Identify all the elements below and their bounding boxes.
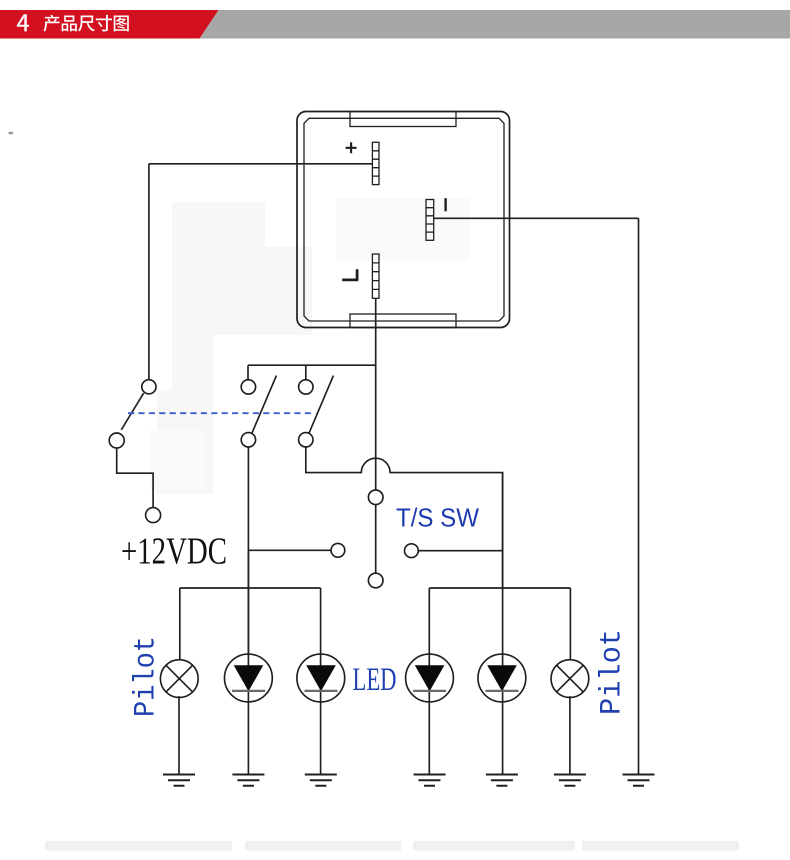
left lamp bus <box>180 587 321 589</box>
LED3 <box>406 654 454 774</box>
ground pilot L <box>163 775 195 786</box>
L terminal label <box>342 269 358 280</box>
relay box U1 outer shell <box>297 112 510 328</box>
plus terminal label <box>346 142 357 153</box>
LED4 <box>478 654 526 774</box>
header red band <box>0 10 219 39</box>
switch S1 lever <box>121 393 143 430</box>
watermark arc near LED1 <box>224 664 229 692</box>
wire minus pin to right <box>434 217 639 219</box>
svg-text:T/S SW: T/S SW <box>396 503 479 533</box>
mechanical link dashed <box>128 412 315 414</box>
wire left vertical down to S1 <box>148 164 150 380</box>
pin strip + <box>372 142 379 184</box>
pin strip L <box>372 254 379 298</box>
T/S SW pole bottom circle <box>368 573 383 588</box>
wire middle bus from L <box>248 364 376 366</box>
switch S3 bottom contact <box>299 433 313 447</box>
ground LED3 <box>414 775 446 786</box>
wire right vertical down to ground <box>638 218 640 774</box>
pilot R wire to ground <box>569 696 571 774</box>
watermark background shapes <box>157 202 312 494</box>
right lamp bus <box>429 587 570 589</box>
wire + pin to left <box>149 163 373 165</box>
wire bus drop to LED2 <box>320 588 322 655</box>
ground negative return <box>623 775 655 786</box>
switch S1 bottom contact <box>109 433 124 448</box>
wire right vertical from hop junction <box>502 473 504 588</box>
minus terminal label <box>444 198 446 211</box>
ground LED2 <box>305 775 337 786</box>
LED2 <box>297 654 345 774</box>
header gray band <box>200 10 790 39</box>
T/S SW pole top circle <box>368 490 383 505</box>
wire L pin down <box>375 298 377 365</box>
right throw contact circle <box>405 544 419 558</box>
wire right throw <box>418 550 502 552</box>
left throw contact circle <box>331 543 345 557</box>
wire stub to S2 <box>247 365 249 380</box>
svg-text:LED: LED <box>353 662 397 698</box>
wire bus drop to LED4 <box>502 588 504 655</box>
wire S2 down to LED1 <box>247 447 249 655</box>
wire bus drop to pilot L <box>179 588 181 660</box>
ground pilot R <box>554 775 586 786</box>
relay top mounting tab <box>350 112 456 127</box>
title text 4 产品尺寸图 <box>17 14 129 31</box>
wire left throw <box>248 549 331 551</box>
wire junction down at 248 <box>247 550 249 654</box>
svg-text:Pilot: Pilot <box>130 636 164 717</box>
switch S3 lever <box>309 376 334 434</box>
ground LED1 <box>232 775 264 786</box>
wire bus drop to LED3 <box>428 588 430 655</box>
wire bus drop to pilot R <box>569 588 571 660</box>
pilot lamp right <box>551 660 589 698</box>
wire S3 down and right with hop <box>306 447 503 588</box>
relay box inner wall <box>304 118 504 321</box>
LED1 <box>225 654 273 774</box>
wire S1 to +12VDC terminal <box>117 448 153 508</box>
ground LED4 <box>486 775 518 786</box>
+12VDC terminal circle <box>146 508 161 523</box>
wire T/S pole down <box>375 365 377 490</box>
switch S2 bottom contact <box>241 433 255 447</box>
pilot L wire to ground <box>178 696 180 774</box>
switch S3 top contact <box>299 380 313 394</box>
wire stub to S3 <box>305 365 307 380</box>
wire between pole circles <box>375 505 377 574</box>
svg-text:Pilot: Pilot <box>596 629 630 715</box>
switch S1 top contact <box>142 380 156 394</box>
svg-text:+12VDC: +12VDC <box>121 531 227 573</box>
pin strip minus <box>426 200 434 241</box>
pilot lamp left <box>160 660 198 698</box>
switch S2 top contact <box>241 380 255 394</box>
switch S2 lever <box>252 376 277 434</box>
watermark tick left edge <box>9 132 14 134</box>
footer table bars <box>45 841 739 851</box>
relay bottom mounting tab <box>350 314 456 328</box>
